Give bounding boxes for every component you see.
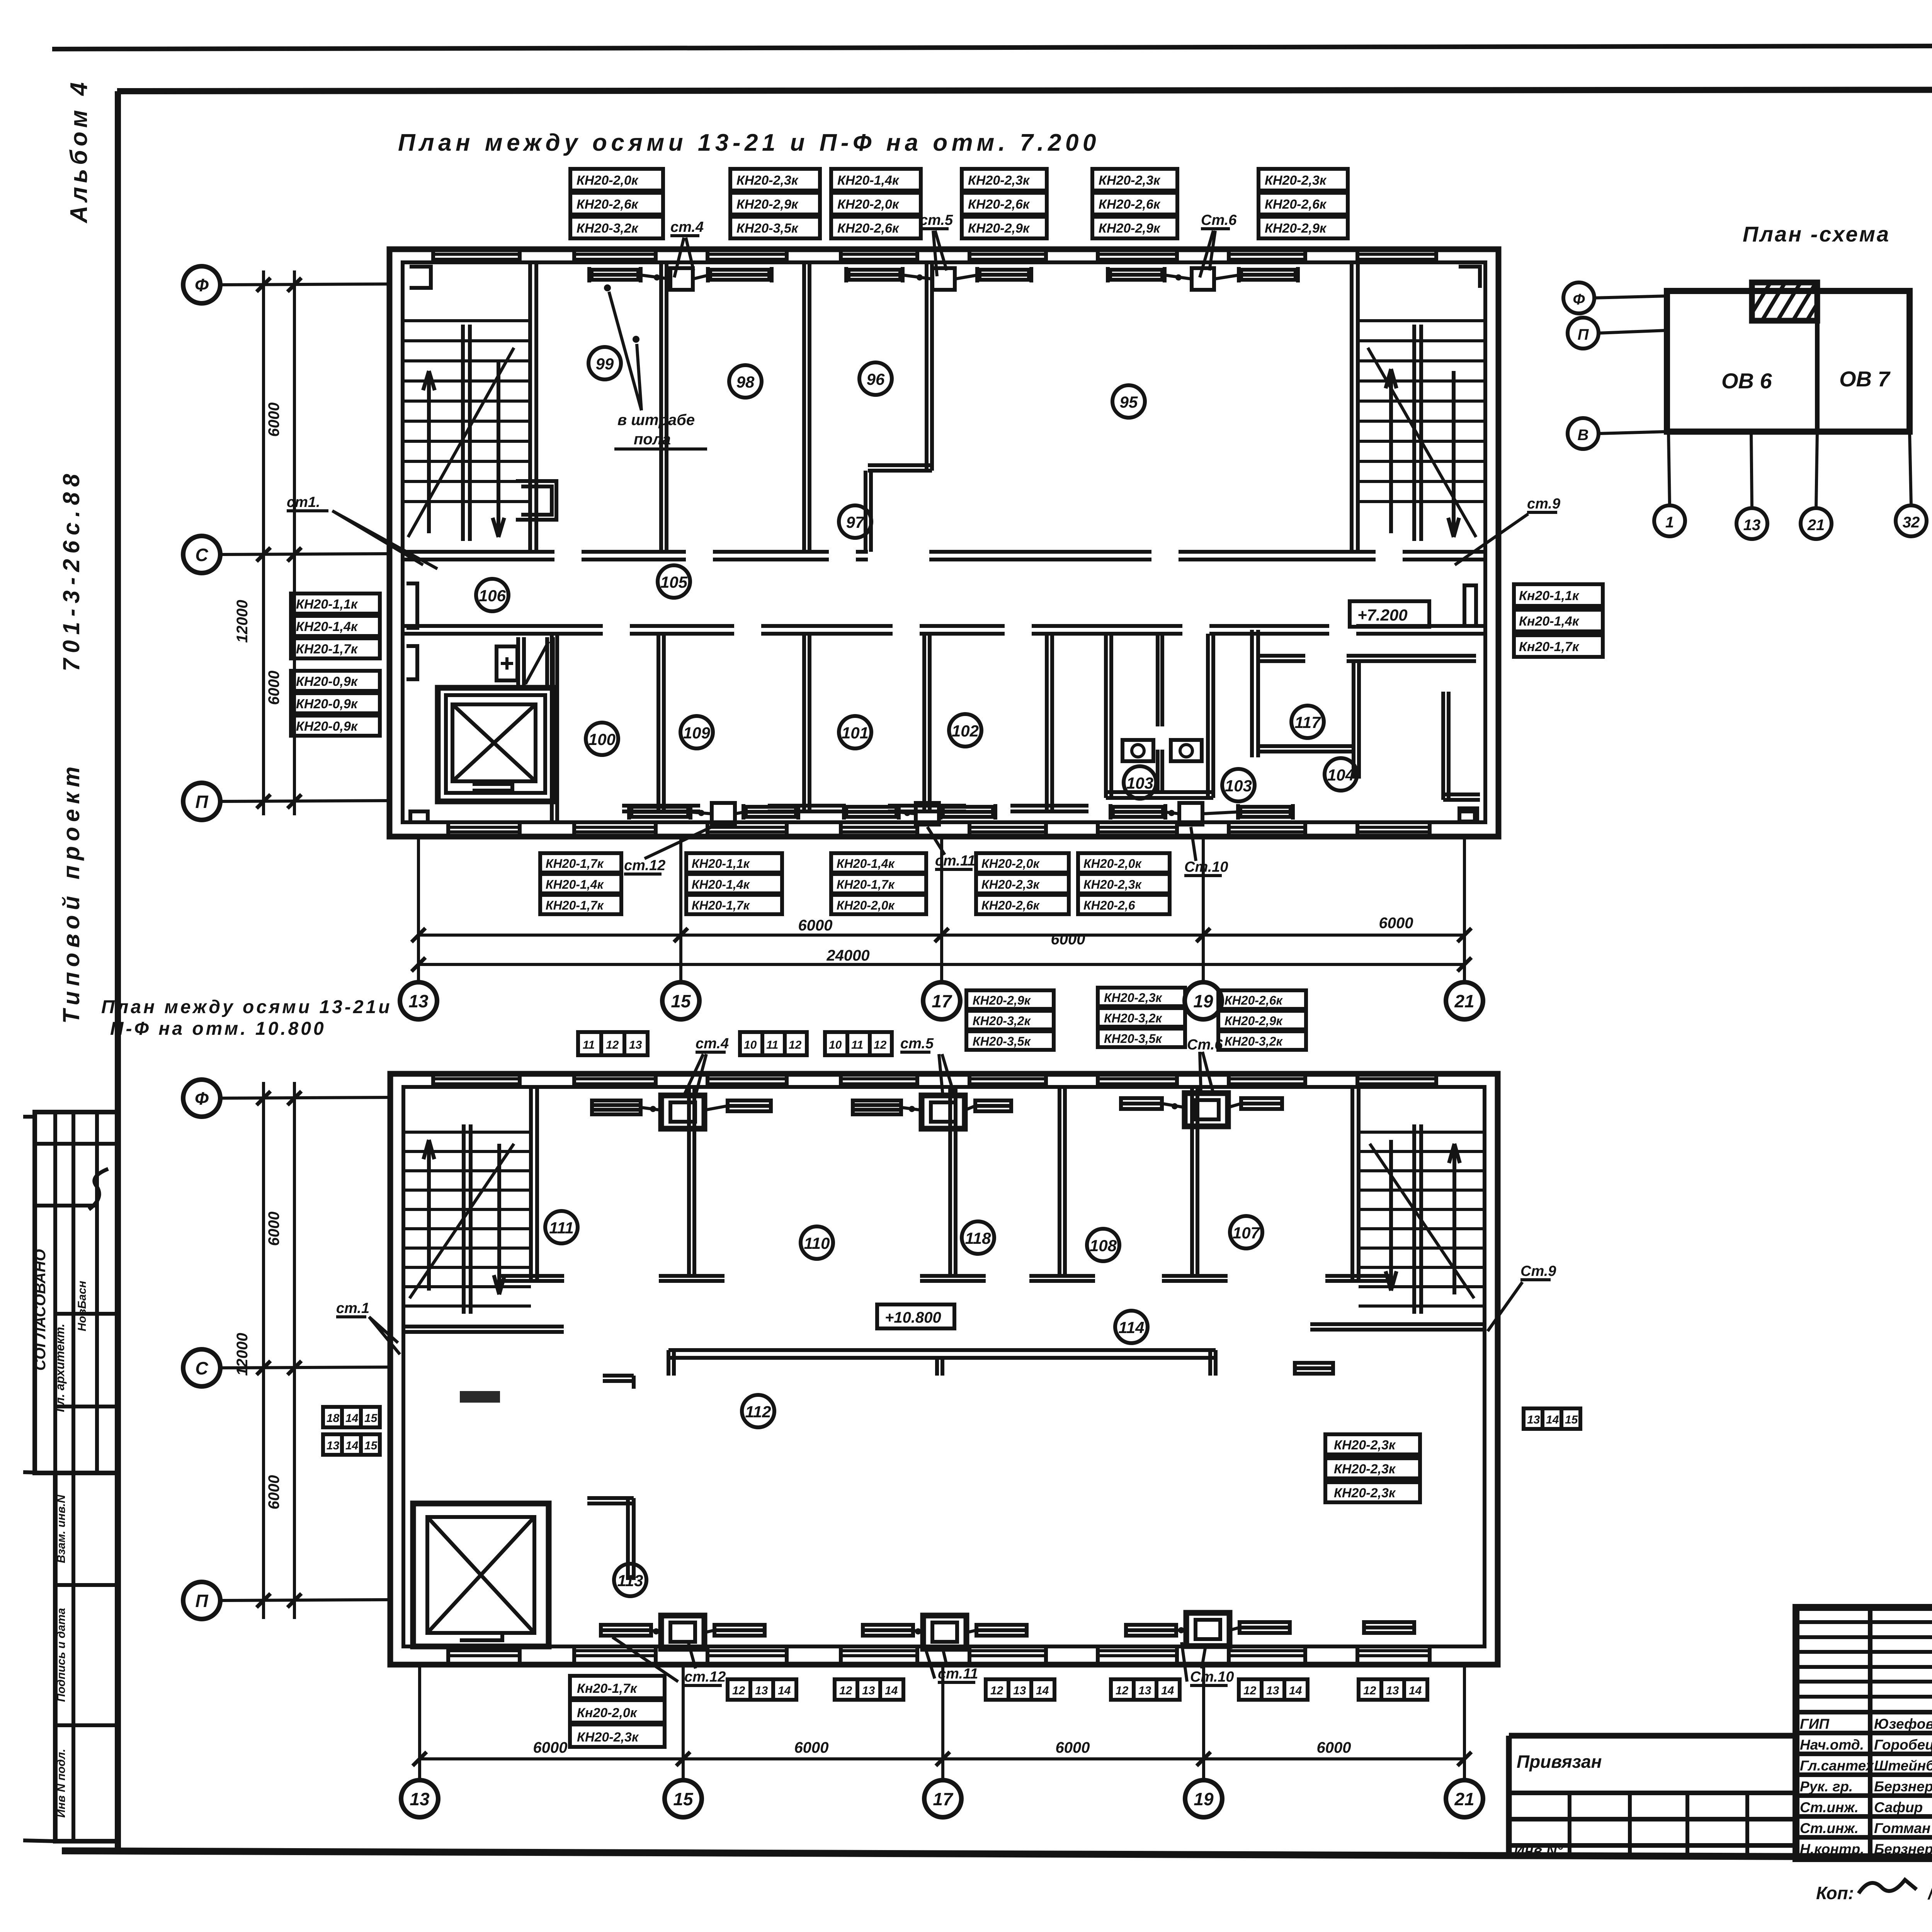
svg-text:КН20-2,6к: КН20-2,6к xyxy=(577,197,639,212)
closet walls xyxy=(518,637,553,686)
svg-text:КН20-2,9к: КН20-2,9к xyxy=(1225,1014,1283,1028)
svg-text:6000: 6000 xyxy=(1379,915,1413,932)
schema axis 21 xyxy=(1801,508,1832,539)
room 117 partition xyxy=(1252,630,1305,757)
KH group top-b lower xyxy=(1098,988,1185,1047)
svg-text:КН20-3,2к: КН20-3,2к xyxy=(973,1014,1031,1028)
room circle 118 xyxy=(962,1221,994,1254)
room circle 105 xyxy=(658,565,690,598)
axis C upper xyxy=(183,536,220,573)
svg-text:13: 13 xyxy=(410,1789,430,1809)
KH group left-lower xyxy=(291,671,380,736)
left stairwell wall xyxy=(530,262,536,552)
svg-text:13: 13 xyxy=(1138,1684,1151,1697)
svg-text:КН20-2,3к: КН20-2,3к xyxy=(736,173,799,188)
SEC:TITLEBLOCK xyxy=(1509,1607,1932,1903)
room circle 97 xyxy=(839,505,871,538)
axis circle 17 upper xyxy=(923,982,960,1019)
svg-text:КН20-2,9к: КН20-2,9к xyxy=(736,197,799,212)
svg-text:План между осями 13-21и: План между осями 13-21и xyxy=(101,997,392,1017)
elevation mark 10.800 xyxy=(877,1304,954,1328)
svg-text:12: 12 xyxy=(1363,1684,1376,1697)
schema axis 1 xyxy=(1654,505,1685,536)
room circle 108 xyxy=(1087,1229,1119,1261)
axis circle 17 lower xyxy=(924,1780,961,1817)
elevation mark 7.200 xyxy=(1350,601,1429,627)
room 117 lower wall xyxy=(1260,746,1354,752)
svg-text:109: 109 xyxy=(683,724,711,742)
svg-text:19: 19 xyxy=(1193,991,1213,1011)
svg-text:Горобец: Горобец xyxy=(1874,1737,1932,1753)
svg-text:КН20-1,4к: КН20-1,4к xyxy=(837,173,900,188)
paper top edge line xyxy=(52,45,1932,49)
schema axis 32 xyxy=(1896,505,1927,536)
svg-text:ГИП: ГИП xyxy=(1800,1716,1830,1732)
svg-text:112: 112 xyxy=(745,1403,771,1421)
KH groups below plan1 xyxy=(540,853,621,914)
svg-text:Н.контр.: Н.контр. xyxy=(1800,1841,1864,1857)
svg-text:Ф: Ф xyxy=(1573,291,1585,308)
room 112 left jog wall xyxy=(603,1376,634,1389)
svg-text:13: 13 xyxy=(1386,1684,1399,1697)
svg-text:701-3-26с.88: 701-3-26с.88 xyxy=(58,469,84,672)
svg-text:ОВ 7: ОВ 7 xyxy=(1839,367,1891,391)
axis circle 19 lower xyxy=(1185,1780,1222,1817)
svg-text:пола: пола xyxy=(634,431,671,448)
svg-text:6000: 6000 xyxy=(798,917,833,934)
room circle 107 xyxy=(1230,1216,1262,1248)
stairwell front wall left lower xyxy=(403,1327,564,1332)
svg-text:КН20-3,2к: КН20-3,2к xyxy=(1104,1011,1163,1025)
top radiators xyxy=(589,267,1298,282)
svg-text:КН20-2,6к: КН20-2,6к xyxy=(1265,197,1327,212)
cell box 13-14-15 left xyxy=(323,1434,380,1455)
svg-text:ст.11: ст.11 xyxy=(935,853,975,869)
svg-text:12000: 12000 xyxy=(234,600,251,643)
svg-text:117: 117 xyxy=(1295,713,1321,731)
svg-text:12000: 12000 xyxy=(234,1333,251,1376)
upper plan bottom wall windows xyxy=(448,827,1430,832)
svg-text:КН20-1,4к: КН20-1,4к xyxy=(692,878,750,891)
svg-text:6000: 6000 xyxy=(1317,1739,1351,1756)
svg-text:КН20-2,6к: КН20-2,6к xyxy=(1225,993,1283,1007)
svg-text:Кн20-2,0к: Кн20-2,0к xyxy=(577,1706,638,1720)
svg-text:ст.12: ст.12 xyxy=(684,1669,726,1685)
elevator shaft xyxy=(438,688,554,801)
room circle 104 xyxy=(1325,758,1357,791)
SEC:PLAN2 xyxy=(323,1074,1580,1665)
svg-text:КН20-2,0к: КН20-2,0к xyxy=(837,197,900,212)
axes 13-21 row below lower plan xyxy=(420,1665,1464,1780)
svg-text:13: 13 xyxy=(327,1439,340,1452)
svg-text:110: 110 xyxy=(804,1234,830,1252)
room circle 106 xyxy=(476,579,509,611)
svg-text:17: 17 xyxy=(933,1789,954,1809)
svg-text:Инв N подл.: Инв N подл. xyxy=(55,1749,68,1818)
elevator hall wall xyxy=(552,634,557,822)
lower left stairs xyxy=(403,1132,531,1306)
svg-text:Привязан: Привязан xyxy=(1517,1752,1602,1772)
KH group top4 xyxy=(962,169,1047,238)
signature squiggle xyxy=(89,1169,108,1209)
svg-text:24000: 24000 xyxy=(826,947,869,964)
axis circle 19 upper xyxy=(1185,982,1222,1019)
svg-text:95: 95 xyxy=(1120,393,1138,411)
small radiator right 114 xyxy=(1295,1363,1333,1374)
svg-text:ОВ 6: ОВ 6 xyxy=(1721,369,1772,393)
stairwell wall stubs xyxy=(500,1276,1389,1281)
schema divider wall xyxy=(1815,291,1820,432)
svg-text:ст1.: ст1. xyxy=(287,494,320,510)
room circle 96 xyxy=(859,362,892,395)
KH group top1 xyxy=(570,169,663,238)
svg-text:12: 12 xyxy=(874,1039,887,1051)
svg-text:11: 11 xyxy=(583,1039,595,1051)
svg-text:Ст.инж.: Ст.инж. xyxy=(1800,1820,1859,1836)
KH group bottom-left lower xyxy=(570,1676,665,1747)
svg-text:КН20-2,6к: КН20-2,6к xyxy=(981,898,1040,912)
svg-text:КН20-2,9к: КН20-2,9к xyxy=(1099,221,1161,236)
svg-text:Ст.10: Ст.10 xyxy=(1184,859,1228,875)
room circle 103b xyxy=(1222,769,1255,801)
bottom riser boxes xyxy=(712,803,735,825)
svg-text:Взам. инв.N: Взам. инв.N xyxy=(55,1494,68,1563)
svg-text:102: 102 xyxy=(952,722,979,740)
SEC:LABELS1 xyxy=(287,169,1603,914)
upper plan outer wall xyxy=(389,249,1498,837)
svg-text:ст.4: ст.4 xyxy=(696,1036,729,1052)
left stairs xyxy=(403,321,530,537)
svg-text:14: 14 xyxy=(1289,1684,1302,1697)
top riser unit 1 lower xyxy=(661,1095,704,1129)
drawing frame top xyxy=(117,89,1932,91)
svg-text:105: 105 xyxy=(660,573,688,591)
svg-text:Ф: Ф xyxy=(195,1088,209,1109)
svg-text:Штейнберг: Штейнберг xyxy=(1874,1758,1932,1774)
svg-text:12: 12 xyxy=(990,1684,1003,1697)
KH group top-a lower xyxy=(966,990,1054,1050)
svg-text:Ф: Ф xyxy=(195,275,209,295)
svg-text:14: 14 xyxy=(885,1684,898,1697)
room circle 103a xyxy=(1124,766,1156,799)
room circle 111 xyxy=(545,1211,578,1243)
corridor upper wall xyxy=(403,552,1485,560)
svg-text:КН20-2,0к: КН20-2,0к xyxy=(1083,857,1142,871)
svg-text:15: 15 xyxy=(364,1412,378,1425)
svg-text:КН20-2,6к: КН20-2,6к xyxy=(968,197,1030,212)
svg-text:12: 12 xyxy=(789,1039,802,1051)
drawing frame left xyxy=(115,91,121,1852)
svg-text:21: 21 xyxy=(1454,1789,1474,1809)
partition 100-109 xyxy=(622,634,700,811)
svg-text:КН20-2,3к: КН20-2,3к xyxy=(1083,878,1142,891)
svg-text:Гл. архитект.: Гл. архитект. xyxy=(53,1324,67,1412)
KH group top5 xyxy=(1092,169,1177,238)
vestibule 97 walls xyxy=(866,465,932,552)
svg-text:14: 14 xyxy=(778,1684,791,1697)
schema axis F xyxy=(1563,282,1594,313)
bottom riser unit 1 lower xyxy=(661,1616,704,1649)
svg-text:17: 17 xyxy=(932,991,952,1011)
svg-text:103: 103 xyxy=(1225,777,1252,795)
svg-text:КН20-2,3к: КН20-2,3к xyxy=(1334,1462,1396,1476)
svg-text:НовБасн: НовБасн xyxy=(76,1281,88,1332)
room circle 109 xyxy=(680,716,713,748)
left dim lines upper xyxy=(264,270,294,815)
svg-text:ст.12: ст.12 xyxy=(624,857,665,874)
svg-text:КН20-1,7к: КН20-1,7к xyxy=(837,878,895,891)
title block outline xyxy=(1796,1607,1932,1859)
approval stamp box xyxy=(35,1112,117,1473)
room circle 101 xyxy=(839,716,871,748)
svg-text:106: 106 xyxy=(479,587,506,605)
svg-text:Сафир: Сафир xyxy=(1874,1799,1923,1815)
svg-text:15: 15 xyxy=(364,1439,378,1452)
svg-text:ст.1: ст.1 xyxy=(336,1300,369,1316)
right stairs xyxy=(1358,321,1485,537)
svg-text:10: 10 xyxy=(829,1039,842,1051)
svg-text:6000: 6000 xyxy=(794,1739,829,1756)
svg-text:13: 13 xyxy=(408,991,429,1011)
lower right stairwell wall xyxy=(1352,1087,1359,1281)
svg-text:Ст.10: Ст.10 xyxy=(1190,1669,1234,1685)
svg-text:КН20-1,4к: КН20-1,4к xyxy=(837,857,895,871)
axis P upper xyxy=(183,783,220,820)
cell box 10-11-12 a xyxy=(740,1032,807,1055)
lower plan bottom wall windows xyxy=(448,1651,1430,1656)
svg-text:КН20-2,6к: КН20-2,6к xyxy=(1099,197,1161,212)
svg-text:104: 104 xyxy=(1327,766,1354,784)
svg-text:15: 15 xyxy=(1565,1413,1578,1426)
svg-text:1: 1 xyxy=(1665,514,1674,531)
svg-text:КН20-2,9к: КН20-2,9к xyxy=(973,993,1031,1007)
signature rows xyxy=(1796,1712,1932,1837)
room circle 114 xyxy=(1115,1311,1148,1343)
left stairwell lower box xyxy=(516,481,556,520)
svg-text:10: 10 xyxy=(744,1039,757,1051)
SEC:SIDEBAR xyxy=(23,78,117,1841)
svg-text:97: 97 xyxy=(846,513,865,531)
svg-text:13: 13 xyxy=(1743,517,1761,534)
svg-text:99: 99 xyxy=(596,355,614,373)
svg-text:КН20-3,5к: КН20-3,5к xyxy=(973,1034,1031,1048)
drawing frame bottom xyxy=(62,1851,1932,1859)
svg-text:Гл.сантех: Гл.сантех xyxy=(1800,1758,1874,1774)
svg-text:15: 15 xyxy=(671,991,691,1011)
svg-text:КН20-2,3к: КН20-2,3к xyxy=(1265,173,1327,188)
svg-text:+7.200: +7.200 xyxy=(1357,606,1408,624)
schema axis P xyxy=(1568,318,1599,349)
svg-text:14: 14 xyxy=(1546,1413,1559,1426)
KH group top2 xyxy=(730,169,820,238)
inventory stamp box xyxy=(55,1473,117,1841)
svg-text:96: 96 xyxy=(867,370,885,388)
top riser unit 3 lower xyxy=(1185,1093,1228,1126)
svg-text:12: 12 xyxy=(1116,1684,1129,1697)
top riser unit 2 lower xyxy=(922,1095,965,1129)
left wall radiators upper xyxy=(406,583,417,679)
schema axis V xyxy=(1568,418,1599,449)
svg-text:Кн20-1,1к: Кн20-1,1к xyxy=(1519,588,1580,603)
wall at room 113 xyxy=(587,1498,634,1580)
cell boxes 12-13-14 row xyxy=(728,1679,1427,1700)
svg-text:ст.4: ст.4 xyxy=(670,219,704,235)
svg-text:Подпись и дата: Подпись и дата xyxy=(55,1608,68,1702)
partition 98-96 xyxy=(804,262,810,552)
SEC:PLAN1 xyxy=(389,249,1498,837)
lower plan top radiators xyxy=(592,1098,1282,1114)
svg-text:13: 13 xyxy=(1527,1413,1540,1426)
partition 96-95 xyxy=(927,262,932,471)
svg-text:6000: 6000 xyxy=(265,1212,282,1246)
axis C lower xyxy=(183,1349,220,1386)
svg-text:18: 18 xyxy=(327,1412,340,1425)
top riser boxes xyxy=(670,268,693,290)
svg-text:КН20-2,3к: КН20-2,3к xyxy=(1334,1438,1396,1452)
svg-text:13: 13 xyxy=(1013,1684,1026,1697)
svg-text:11: 11 xyxy=(766,1039,778,1051)
svg-text:19: 19 xyxy=(1194,1789,1214,1809)
svg-text:13: 13 xyxy=(629,1039,642,1051)
room circle 98 xyxy=(729,365,762,398)
room circle 99 xyxy=(588,347,621,379)
room circle 110 xyxy=(801,1226,833,1259)
svg-text:98: 98 xyxy=(736,373,755,391)
cell box 18-14-15 xyxy=(323,1407,380,1427)
bottom radiators xyxy=(629,804,1293,820)
partition 110-118 xyxy=(920,1087,986,1281)
svg-text:КН20-2,3к: КН20-2,3к xyxy=(1334,1486,1396,1500)
svg-text:Кн20-1,4к: Кн20-1,4к xyxy=(1519,614,1580,629)
SEC:LABELS2 xyxy=(570,988,1427,1747)
room 112 upper wall xyxy=(668,1350,1216,1358)
upper thin rows xyxy=(1796,1622,1932,1697)
svg-text:КН20-2,0к: КН20-2,0к xyxy=(577,173,639,188)
svg-text:КН20-1,1к: КН20-1,1к xyxy=(692,857,750,871)
room circle 113 xyxy=(614,1564,646,1596)
svg-text:6000: 6000 xyxy=(265,671,282,705)
svg-text:Типовой проект: Типовой проект xyxy=(58,762,84,1024)
lower right stairs xyxy=(1359,1132,1485,1306)
svg-text:План между осями 13-21 и П-Ф н: План между осями 13-21 и П-Ф на отм. 7.2… xyxy=(398,129,1100,156)
svg-text:13: 13 xyxy=(862,1684,875,1697)
axes 13-21 row below upper plan xyxy=(418,838,1464,981)
right wall radiator upper xyxy=(1464,585,1476,626)
svg-text:Коп:: Коп: xyxy=(1816,1883,1854,1903)
partition 118-108 xyxy=(1029,1087,1095,1281)
svg-text:6000: 6000 xyxy=(265,403,282,437)
left dim lines lower xyxy=(264,1082,294,1619)
svg-text:21: 21 xyxy=(1454,991,1474,1011)
axis F upper xyxy=(183,266,220,303)
svg-text:Альбом 4: Альбом 4 xyxy=(66,78,92,224)
room circle 95 xyxy=(1112,385,1145,418)
svg-text:Нач.отд.: Нач.отд. xyxy=(1800,1737,1864,1753)
edge ticks xyxy=(23,1117,55,1841)
svg-text:ст.5: ст.5 xyxy=(900,1036,934,1052)
svg-text:21: 21 xyxy=(1807,517,1825,534)
svg-text:Инв.N°: Инв.N° xyxy=(1514,1843,1563,1859)
svg-text:КН20-1,7к: КН20-1,7к xyxy=(546,898,604,912)
svg-text:КН20-2,6к: КН20-2,6к xyxy=(837,221,900,236)
schema building outline xyxy=(1667,291,1910,432)
vent chamber 104 walls xyxy=(1347,656,1476,779)
upper plan top wall windows xyxy=(433,254,1436,259)
svg-text:6000: 6000 xyxy=(265,1475,282,1510)
signature grid verticals xyxy=(1870,1607,1932,1859)
lower plan outer wall xyxy=(390,1074,1498,1665)
svg-text:С: С xyxy=(195,545,208,565)
axis circle 21 lower xyxy=(1446,1780,1483,1817)
svg-text:12: 12 xyxy=(1243,1684,1257,1697)
svg-text:11: 11 xyxy=(851,1039,863,1051)
svg-text:КН20-1,7к: КН20-1,7к xyxy=(296,642,358,656)
svg-text:ст.9: ст.9 xyxy=(1527,496,1560,512)
cell box 13-14-15 right xyxy=(1524,1408,1580,1429)
svg-text:П-Ф на отм. 10.800: П-Ф на отм. 10.800 xyxy=(110,1019,326,1039)
partition 101-102 xyxy=(888,634,966,811)
svg-text:Кн20-1,7к: Кн20-1,7к xyxy=(577,1681,638,1696)
SEC:SCHEMA xyxy=(1563,222,1927,539)
svg-text:107: 107 xyxy=(1233,1224,1260,1242)
svg-text:КН20-3,2к: КН20-3,2к xyxy=(1225,1034,1283,1048)
right vestibule walls xyxy=(1443,692,1480,800)
svg-text:КН20-1,4к: КН20-1,4к xyxy=(546,878,604,891)
partition 109-101 xyxy=(768,634,846,811)
svg-text:КН20-1,7к: КН20-1,7к xyxy=(692,898,750,912)
svg-text:13: 13 xyxy=(755,1684,768,1697)
svg-text:ст.5: ст.5 xyxy=(920,212,953,228)
SEC:TITLES xyxy=(101,129,1100,1039)
axis circle 13 upper xyxy=(400,982,437,1019)
lower left stairwell wall xyxy=(531,1087,537,1281)
svg-text:14: 14 xyxy=(1036,1684,1049,1697)
svg-text:План -схема: План -схема xyxy=(1743,222,1890,246)
cell box 11-12-13 top xyxy=(578,1032,648,1055)
svg-text:+10.800: +10.800 xyxy=(885,1309,941,1326)
partition 108-107 xyxy=(1162,1087,1228,1281)
lower plan top wall windows xyxy=(433,1079,1436,1084)
partition 102-103 xyxy=(1010,634,1088,811)
svg-text:Берзнер: Берзнер xyxy=(1874,1841,1932,1857)
svg-text:КН20-2,3к: КН20-2,3к xyxy=(1099,173,1161,188)
schema axis 13 xyxy=(1736,508,1767,539)
svg-text:КН20-2,9к: КН20-2,9к xyxy=(968,221,1030,236)
svg-text:114: 114 xyxy=(1119,1318,1145,1337)
signature labels xyxy=(1800,1716,1932,1857)
corridor lower wall xyxy=(403,626,1485,634)
bottom riser unit 3 lower xyxy=(1186,1613,1230,1646)
svg-text:П: П xyxy=(195,1591,208,1611)
svg-text:П: П xyxy=(1578,326,1589,343)
SEC:AXES2 xyxy=(183,1080,1483,1817)
privyazan box xyxy=(1509,1736,1796,1859)
svg-text:Рук. гр.: Рук. гр. xyxy=(1800,1779,1853,1794)
WC block walls xyxy=(1106,634,1213,798)
svg-text:12: 12 xyxy=(732,1684,745,1697)
cell box 10-11-12 b xyxy=(825,1032,892,1055)
svg-text:Ст.инж.: Ст.инж. xyxy=(1800,1799,1859,1815)
svg-text:В: В xyxy=(1578,427,1589,444)
svg-text:13: 13 xyxy=(1266,1684,1279,1697)
svg-text:П: П xyxy=(195,792,208,812)
svg-text:100: 100 xyxy=(588,730,616,748)
svg-text:КН20-2,3к: КН20-2,3к xyxy=(981,878,1040,891)
svg-text:КН20-2,0к: КН20-2,0к xyxy=(981,857,1040,871)
partition 99-98 xyxy=(661,262,667,552)
lower plan bottom radiators xyxy=(601,1622,1414,1636)
svg-text:6000: 6000 xyxy=(1051,931,1085,948)
